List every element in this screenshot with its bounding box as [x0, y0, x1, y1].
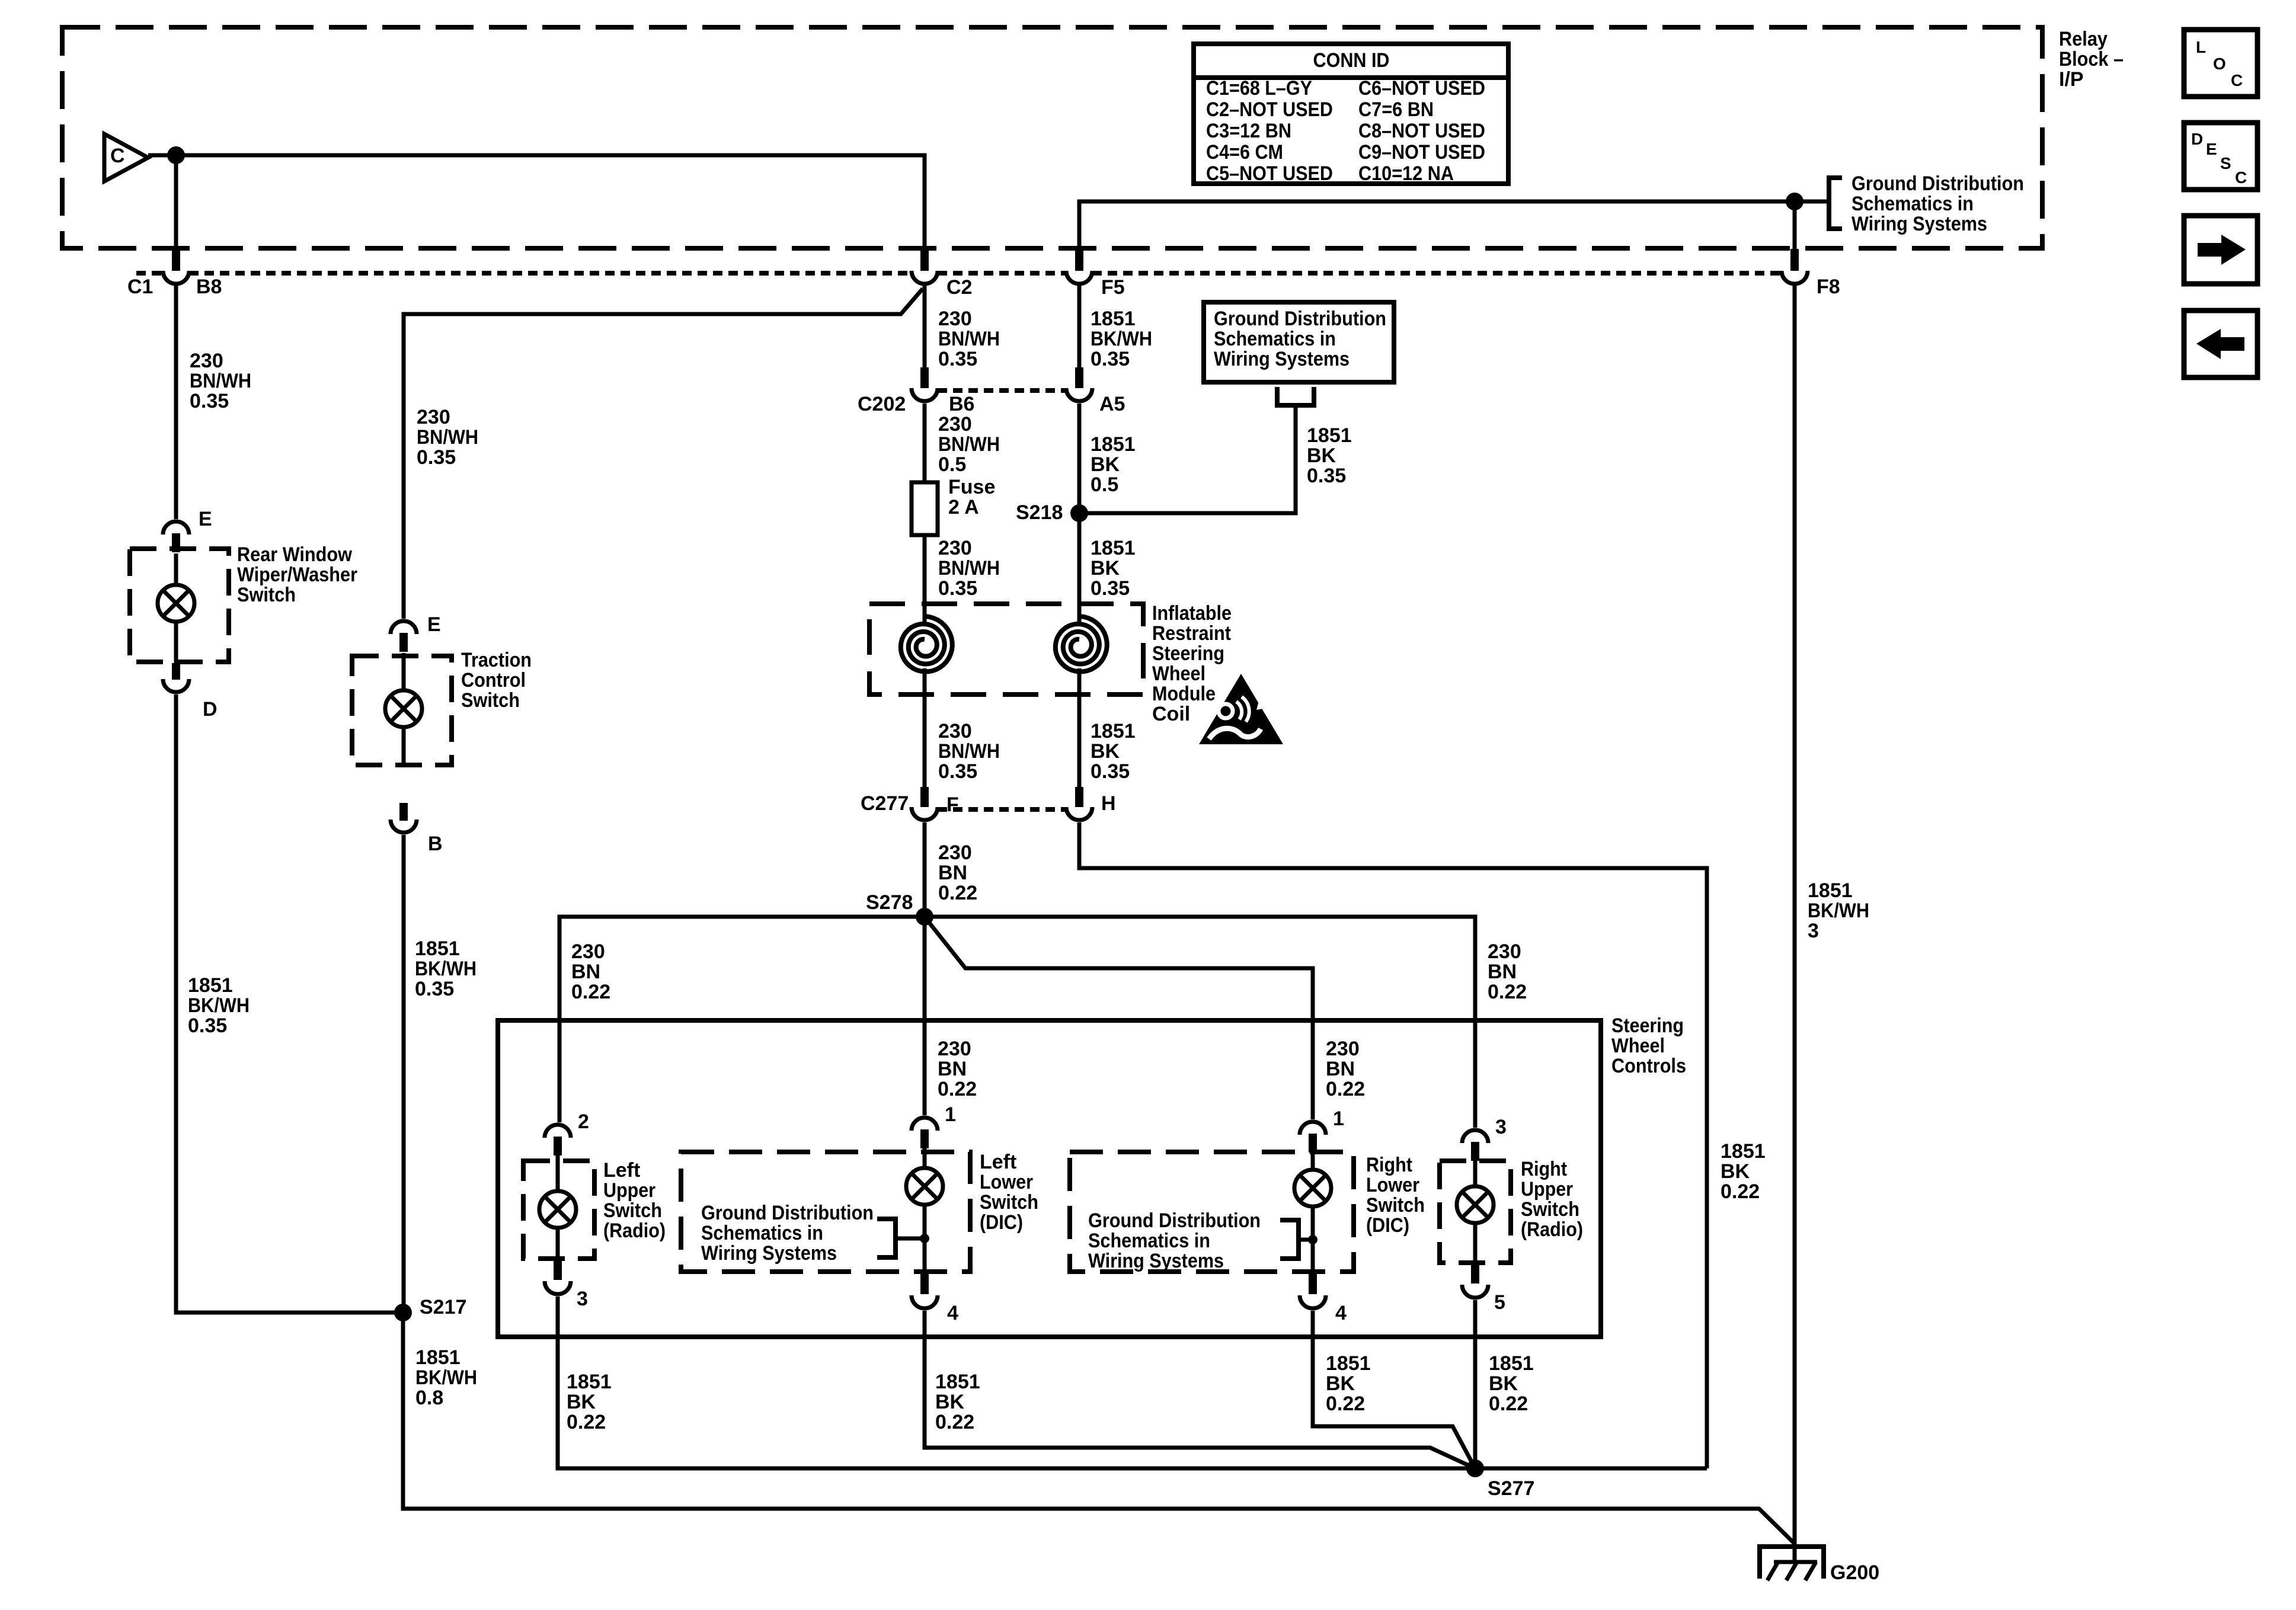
- pin 3 connector (right upper switch): [1462, 1130, 1488, 1161]
- label 1851 BK/WH 3 (F8 ground run): [1808, 879, 1869, 942]
- node: right lower ground junction: [1308, 1235, 1318, 1244]
- svg-text:4: 4: [947, 1302, 958, 1324]
- connector C277 pin H: [1066, 787, 1092, 820]
- label pin 3: [577, 1288, 588, 1310]
- wire: C2 branch to traction control switch: [404, 289, 923, 619]
- label E (rear window switch): [199, 508, 212, 530]
- label D (rear window switch): [203, 698, 218, 721]
- wire: B down to S217: [402, 835, 406, 1313]
- connector C2: [912, 249, 938, 284]
- pin 1 connector (left lower switch): [912, 1118, 938, 1148]
- bracket (right lower ground ref): [1280, 1220, 1313, 1259]
- wire: A5 to coil with S218: [1077, 404, 1082, 622]
- wire: S217 to G200: [403, 1313, 1795, 1544]
- label S218: [1016, 501, 1063, 524]
- right upper switch dashed box: [1440, 1161, 1511, 1263]
- label 230 BN/WH 0.5: [938, 413, 1000, 476]
- svg-text:D: D: [203, 698, 218, 721]
- coil clockspring left: [901, 616, 952, 672]
- label B6: [949, 393, 974, 415]
- svg-text:B: B: [428, 833, 443, 855]
- wire: D down and right to S217: [176, 694, 403, 1313]
- wire through right coil: [1077, 619, 1082, 679]
- svg-text:E: E: [199, 508, 212, 530]
- lamp: left lower switch: [906, 1168, 943, 1205]
- svg-text:F8: F8: [1817, 276, 1840, 298]
- label 1851 BK/WH 0.8: [415, 1346, 477, 1409]
- label pin 4 (left lower): [947, 1302, 958, 1324]
- wire inside right upper switch: [1473, 1161, 1478, 1264]
- svg-text:D: D: [2191, 130, 2203, 148]
- lamp: right upper switch: [1457, 1186, 1494, 1223]
- label Steering Wheel Controls: [1611, 1014, 1686, 1077]
- svg-text:H: H: [1101, 792, 1116, 815]
- label 1851 BK/WH 0.35 (traction ground): [415, 937, 477, 1000]
- label pin 3 (right upper): [1495, 1116, 1507, 1138]
- wire: S278 left branch to left upper switch pin 2: [559, 917, 925, 1122]
- label 230 BN 0.22 (right lower feed): [1326, 1038, 1365, 1100]
- wire: F5 to A5: [1077, 286, 1082, 379]
- svg-text:C: C: [2231, 71, 2243, 89]
- connector C202 pin B6: [912, 367, 938, 401]
- label G200: [1830, 1561, 1879, 1584]
- pin 2 connector (left upper switch): [545, 1125, 571, 1156]
- relay block I/P dashed outline: [62, 27, 2042, 248]
- svg-text:E: E: [427, 613, 441, 636]
- lamp: traction control switch: [385, 690, 422, 727]
- label Rear Window Wiper/Washer Switch: [237, 543, 357, 606]
- connector C277 dotted line: [938, 807, 1066, 812]
- LOC reference box: [2184, 30, 2257, 97]
- wire: branch down to C1: [174, 155, 178, 249]
- label B8: [196, 276, 222, 298]
- svg-text:3: 3: [1495, 1116, 1507, 1138]
- svg-text:S278: S278: [866, 891, 913, 914]
- wire: H ground run to right side: [1079, 822, 1707, 1468]
- label 1851 BK 0.22 (right lower ground): [1326, 1352, 1371, 1415]
- wire: left lower pin 4 to S277: [925, 1311, 1475, 1468]
- wire: coil right to H: [1077, 678, 1082, 788]
- label 1851 BK 0.22 (right upper ground): [1489, 1352, 1534, 1415]
- wire inside traction switch: [402, 653, 406, 766]
- label C2: [946, 276, 972, 299]
- label 230 BN/WH 0.35 (traction drop): [417, 406, 478, 469]
- connector C1 pin B8: [163, 249, 189, 284]
- label C1: [127, 276, 153, 298]
- svg-text:CONN ID: CONN ID: [1313, 49, 1390, 72]
- svg-text:S277: S277: [1488, 1477, 1534, 1500]
- fuse 2A: [912, 482, 938, 535]
- svg-text:1: 1: [945, 1103, 956, 1126]
- pin 3 connector (left upper switch): [545, 1260, 571, 1294]
- label 230 BN/WH 0.35 (below fuse): [938, 537, 1000, 600]
- left upper switch dashed box: [523, 1161, 594, 1259]
- label ground distribution schematics (left): [701, 1202, 874, 1265]
- label 230 BN/WH 0.35 (C1 drop): [190, 350, 251, 412]
- ground G200 symbol: [1760, 1509, 1824, 1580]
- svg-text:G200: G200: [1830, 1561, 1879, 1584]
- node S278: [916, 908, 933, 926]
- label 1851 BK 0.22 (left upper ground): [567, 1371, 612, 1433]
- label Fuse 2 A: [948, 476, 995, 518]
- svg-text:1: 1: [1333, 1108, 1344, 1130]
- ground distribution reference box (top middle): [1204, 302, 1394, 382]
- label pin 2: [578, 1110, 589, 1133]
- svg-text:E: E: [2206, 140, 2217, 158]
- svg-text:C2: C2: [946, 276, 972, 299]
- airbag warning triangle: [1199, 674, 1283, 744]
- label 1851 BK 0.35 (S218 branch): [1307, 424, 1352, 487]
- label C277: [861, 792, 909, 815]
- svg-text:F: F: [946, 793, 959, 816]
- label 230 BN 0.22 (above S278): [938, 841, 977, 904]
- back arrow box: [2184, 311, 2257, 377]
- label Relay Block - I/P: [2059, 28, 2124, 91]
- svg-text:B6: B6: [949, 393, 974, 415]
- wire: right lower pin 4 to S277: [1313, 1311, 1475, 1468]
- label Left Lower Switch (DIC): [980, 1151, 1038, 1234]
- label Traction Control Switch: [461, 649, 532, 712]
- wire: S278 diagonal branch to right lower switch pin 1: [926, 919, 1313, 1119]
- connector C277 pin F: [912, 787, 938, 820]
- node: junction above F8: [1786, 193, 1803, 210]
- svg-text:4: 4: [1335, 1302, 1347, 1324]
- wire: drop to F8: [1793, 201, 1797, 249]
- svg-text:3: 3: [577, 1288, 588, 1310]
- label ground distribution schematics in wiring systems (top right): [1851, 172, 2024, 235]
- label 230 BN 0.22 (left lower feed): [938, 1038, 977, 1100]
- pin E connector (traction switch): [391, 621, 417, 652]
- pin 4 connector (left lower switch): [912, 1274, 938, 1308]
- coil clockspring right: [1056, 616, 1107, 672]
- lamp: left upper switch: [539, 1191, 576, 1228]
- label F5: [1101, 276, 1125, 299]
- svg-text:C: C: [2235, 168, 2247, 187]
- label pin 1 (left lower): [945, 1103, 956, 1126]
- wire: pin 3 down to S277 run: [558, 1297, 1707, 1468]
- wire: C2 to B6: [923, 286, 927, 379]
- connector F8: [1782, 249, 1808, 284]
- rear window wiper/washer switch dashed box: [130, 549, 229, 662]
- label S277: [1488, 1477, 1534, 1500]
- wire: F8 down to G200: [1793, 286, 1797, 1561]
- label S278: [866, 891, 913, 914]
- connector F5: [1066, 249, 1092, 284]
- steering wheel controls box: [498, 1020, 1601, 1337]
- svg-text:B8: B8: [196, 276, 222, 298]
- label F8: [1817, 276, 1840, 298]
- wire: B6 to fuse: [923, 404, 927, 484]
- svg-text:C202: C202: [858, 393, 906, 415]
- svg-text:A5: A5: [1099, 393, 1125, 415]
- svg-text:L: L: [2196, 38, 2206, 56]
- wire: pin 5 down to S277: [1473, 1300, 1478, 1468]
- wire: F down to S278 and left lower switch pin 1: [923, 822, 927, 1115]
- label 1851 BK 0.22 (left lower ground): [935, 1371, 980, 1433]
- svg-text:S217: S217: [420, 1296, 466, 1318]
- pin E connector (rear window switch): [163, 521, 189, 552]
- label Inflatable Restraint Steering Wheel Module Coil: [1152, 602, 1232, 725]
- label 230 BN 0.22 (left upper feed): [571, 940, 610, 1003]
- svg-text:C1: C1: [127, 276, 153, 298]
- label 230 BN/WH 0.35 (coil to C277): [938, 720, 1000, 783]
- svg-text:F5: F5: [1101, 276, 1125, 299]
- label B (traction switch): [428, 833, 443, 855]
- node S277: [1466, 1459, 1484, 1477]
- label Right Upper Switch (Radio): [1521, 1158, 1583, 1241]
- connector C202 dotted line: [938, 388, 1066, 393]
- label C202: [858, 393, 906, 415]
- forward arrow box: [2184, 216, 2257, 284]
- label pin 4 (right lower): [1335, 1302, 1347, 1324]
- wire: C arrow to C2 drop: [148, 155, 925, 249]
- svg-text:C277: C277: [861, 792, 909, 815]
- label 230 BN 0.22 (right upper feed): [1488, 940, 1527, 1003]
- label 1851 BK/WH 0.35 (below F5): [1091, 308, 1152, 370]
- wire: fuse to coil: [923, 534, 927, 622]
- label S217: [420, 1296, 466, 1318]
- node S218: [1070, 504, 1088, 522]
- pin 1 connector (right lower switch): [1300, 1122, 1326, 1153]
- label pin 5 (right upper): [1494, 1291, 1505, 1314]
- connector C202 pin A5: [1066, 367, 1092, 401]
- svg-text:S218: S218: [1016, 501, 1063, 524]
- node: left lower ground junction: [920, 1234, 929, 1243]
- ground distribution / left lower switch dashed box: [681, 1152, 970, 1272]
- wire inside rear window switch: [174, 553, 178, 663]
- I/P harness connector row dotted line (C1..F8): [136, 271, 1782, 276]
- lamp: rear window wiper/washer switch: [158, 585, 194, 622]
- CONN ID table: [1194, 44, 1508, 185]
- wire through left coil: [923, 619, 927, 679]
- label Right Lower Switch (DIC): [1366, 1154, 1425, 1237]
- pin 4 connector (right lower switch): [1300, 1274, 1326, 1308]
- lamp: right lower switch: [1294, 1170, 1331, 1206]
- svg-text:2: 2: [578, 1110, 589, 1133]
- svg-text:5: 5: [1494, 1291, 1505, 1314]
- pin B connector (traction switch): [391, 803, 417, 833]
- pin D connector (rear window switch): [163, 663, 189, 692]
- label 1851 BK 0.5: [1091, 433, 1136, 496]
- label E (traction switch): [427, 613, 441, 636]
- off-page bracket: ground distribution schematics (top right): [1829, 178, 1842, 229]
- label ground distribution schematics (right): [1088, 1209, 1261, 1272]
- wire inside right lower switch: [1311, 1153, 1315, 1273]
- label A5: [1099, 393, 1125, 415]
- label pin 1 (right lower): [1333, 1108, 1344, 1130]
- wire: coil left to F: [923, 678, 927, 788]
- node: junction at C arrow output: [167, 146, 185, 164]
- svg-text:S: S: [2220, 154, 2231, 172]
- DESC reference box: [2184, 123, 2257, 190]
- inflatable restraint steering wheel module coil dashed box: [869, 604, 1143, 694]
- wire inside left upper switch: [556, 1156, 560, 1260]
- bracket (left lower ground ref): [877, 1219, 925, 1257]
- svg-text:C: C: [110, 145, 125, 167]
- off-page arrow C (circuit 230 source): [104, 134, 148, 181]
- node S217: [394, 1304, 412, 1321]
- wire: S218 branch to ground distribution bracket: [1079, 408, 1296, 513]
- wire inside left lower switch: [923, 1148, 927, 1273]
- ground distribution / right lower switch dashed box: [1070, 1152, 1354, 1272]
- wire: C1 to rear window switch pin E: [174, 286, 178, 519]
- label Left Upper Switch (Radio): [603, 1159, 666, 1242]
- label 1851 BK 0.35 (below S218): [1091, 537, 1136, 600]
- bracket under ground distribution box: [1277, 387, 1314, 405]
- pin 5 connector (right upper switch): [1462, 1263, 1488, 1298]
- label 1851 BK 0.35 (coil to C277): [1091, 720, 1136, 783]
- label 1851 BK/WH 0.35 (left column): [188, 974, 250, 1037]
- traction control switch dashed box: [352, 656, 452, 765]
- wire: S278 right branch to right upper switch pin 3: [925, 917, 1475, 1128]
- label H: [1101, 792, 1116, 815]
- label 1851 BK 0.22 (right side run): [1721, 1140, 1766, 1203]
- wire: F5 riser and top run to ground distribution ref: [1079, 201, 1829, 249]
- label 230 BN/WH 0.35 (below C2): [938, 308, 1000, 370]
- label F: [946, 793, 959, 816]
- svg-text:O: O: [2213, 55, 2226, 73]
